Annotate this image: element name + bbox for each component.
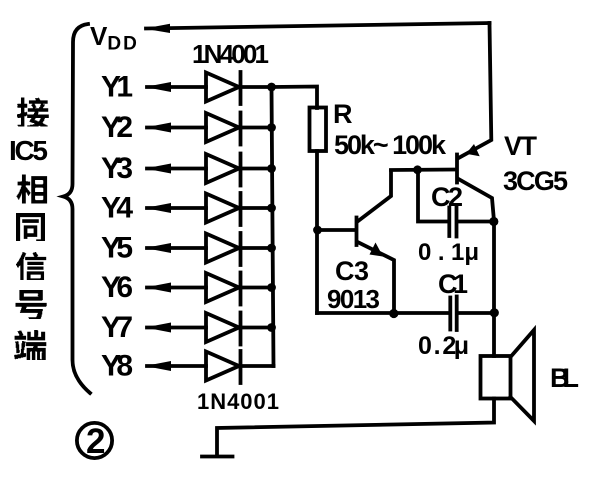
arrowhead on Y7 wire (pointing left) bbox=[145, 323, 171, 333]
wire Y8 row bbox=[147, 364, 206, 368]
junction dot base tee bbox=[313, 226, 322, 235]
arrowhead on Y6 wire (pointing left) bbox=[145, 283, 171, 293]
svg-text:1N4001: 1N4001 bbox=[192, 39, 269, 69]
diode D3 (1N4001) anode triangle bbox=[206, 154, 239, 183]
arrowhead on VDD rail (pointing left) bbox=[144, 24, 170, 33]
wire speaker bottom to ground bbox=[217, 399, 494, 455]
svg-text:Y6: Y6 bbox=[101, 271, 133, 304]
diode D1 (1N4001) anode triangle bbox=[206, 73, 239, 102]
svg-text:Y8: Y8 bbox=[101, 350, 133, 383]
svg-text:Y2: Y2 bbox=[101, 111, 133, 144]
diode D1 cathode bar bbox=[239, 72, 243, 104]
svg-text:Y4: Y4 bbox=[101, 192, 133, 225]
diode D8 (1N4001) anode triangle bbox=[206, 352, 239, 381]
resistor R body bbox=[310, 108, 327, 152]
transistor VT emitter (from top rail) bbox=[459, 23, 492, 158]
arrowhead on Y8 wire (pointing left) bbox=[145, 361, 171, 371]
svg-text:C3: C3 bbox=[335, 256, 369, 286]
capacitor C1 left plate bbox=[448, 298, 452, 330]
diode D6 cathode bar bbox=[239, 273, 243, 305]
wire diode D1 cathode to bus bbox=[241, 85, 274, 89]
svg-text:BL: BL bbox=[550, 363, 579, 393]
diode D6 (1N4001) anode triangle bbox=[206, 273, 239, 302]
svg-text:R: R bbox=[333, 99, 353, 129]
ground symbol bbox=[202, 455, 233, 459]
Chinese label 号 bbox=[16, 290, 47, 319]
arrowhead on Y3 wire (pointing left) bbox=[145, 164, 171, 174]
capacitor C2 right plate bbox=[455, 207, 459, 237]
wire diode D4 cathode to bus bbox=[241, 206, 274, 210]
junction dot bus/Y4 bbox=[267, 204, 276, 213]
wire base of Q1 (9013) bbox=[317, 228, 356, 232]
wire diode D5 cathode to bus bbox=[241, 246, 274, 250]
transistor Q1 collector bbox=[358, 171, 392, 222]
svg-text:Y7: Y7 bbox=[101, 311, 133, 344]
arrowhead on Y4 wire (pointing left) bbox=[145, 203, 171, 213]
wire diode D2 cathode to bus bbox=[241, 126, 274, 130]
arrowhead on Y2 wire (pointing left) bbox=[145, 123, 171, 133]
brace (left bracket grouping Y lines) bbox=[64, 24, 91, 393]
junction dot bus/Y6 bbox=[267, 283, 276, 292]
wire diode D6 cathode to bus bbox=[241, 286, 274, 290]
wire resistor bottom to oscillator bottom rail bbox=[315, 151, 319, 313]
wire VDD top rail bbox=[146, 23, 490, 29]
wire C1 right segment bbox=[459, 311, 495, 315]
wire Y2 row bbox=[147, 126, 206, 130]
svg-text:IC5: IC5 bbox=[9, 135, 48, 166]
figure number (2) circle bbox=[77, 423, 112, 458]
speaker BL cone bbox=[511, 330, 535, 421]
svg-text:0 . 2μ: 0 . 2μ bbox=[418, 332, 469, 360]
svg-text:Y1: Y1 bbox=[101, 71, 133, 104]
svg-text:C2: C2 bbox=[431, 182, 463, 212]
transistor Q1 emitter bbox=[358, 242, 395, 313]
wire bus to resistor R bbox=[272, 87, 318, 109]
junction dot bus/Y2 bbox=[267, 123, 276, 132]
junction dot C2/collector bbox=[489, 217, 498, 226]
transistor Q1 9013 base bar bbox=[355, 218, 359, 246]
diode D4 cathode bar bbox=[239, 193, 243, 225]
svg-text:3CG5: 3CG5 bbox=[503, 166, 568, 196]
diode D4 (1N4001) anode triangle bbox=[206, 194, 239, 223]
wire Y5 row bbox=[147, 246, 206, 250]
svg-text:9013: 9013 bbox=[327, 284, 380, 314]
wire C2 left branch bbox=[418, 170, 447, 222]
wire oscillator bottom rail left segment bbox=[317, 311, 448, 315]
wire cathode bus (vertical) bbox=[272, 87, 274, 366]
transistor Q1 emitter arrowhead bbox=[370, 243, 384, 257]
speaker BL frame bbox=[481, 356, 511, 399]
svg-text:VT: VT bbox=[504, 131, 538, 161]
wire diode D3 cathode to bus bbox=[241, 167, 274, 171]
diode D5 (1N4001) anode triangle bbox=[206, 234, 239, 263]
junction dot bus/Y7 bbox=[267, 323, 276, 332]
junction dot C1/right rail bbox=[490, 308, 499, 317]
svg-text:Y3: Y3 bbox=[101, 152, 133, 185]
svg-text:Y5: Y5 bbox=[101, 232, 133, 265]
wire Y6 row bbox=[147, 286, 206, 290]
wire Y3 row bbox=[147, 167, 206, 171]
diode D7 (1N4001) anode triangle bbox=[206, 313, 239, 342]
arrowhead on Y5 wire (pointing left) bbox=[145, 243, 171, 253]
Chinese label 相 bbox=[17, 175, 48, 204]
diode D5 cathode bar bbox=[239, 233, 243, 265]
diode D2 cathode bar bbox=[239, 113, 243, 145]
diode D8 cathode bar bbox=[239, 351, 243, 383]
Chinese label 信 bbox=[16, 252, 46, 280]
diode D3 cathode bar bbox=[239, 154, 243, 186]
transistor VT 3CG5 base bar bbox=[455, 155, 459, 183]
svg-text:2: 2 bbox=[86, 422, 105, 461]
transistor VT collector bbox=[459, 179, 495, 221]
junction dot bus/Y5 bbox=[267, 244, 276, 253]
capacitor C1 right plate bbox=[455, 297, 459, 331]
svg-text:0 . 1μ: 0 . 1μ bbox=[418, 239, 479, 266]
Chinese label 接 bbox=[17, 98, 49, 127]
capacitor C2 left plate bbox=[447, 208, 451, 237]
junction dot Q1 emitter/rail bbox=[389, 309, 398, 318]
junction dot C2 tee bbox=[413, 165, 422, 174]
junction dot bus/Y1 bbox=[267, 83, 276, 92]
wire VT collector down to speaker bbox=[492, 222, 496, 357]
wire Y7 row bbox=[147, 326, 206, 330]
wire diode D7 cathode to bus bbox=[241, 326, 274, 330]
svg-text:50k~ 100k: 50k~ 100k bbox=[334, 130, 447, 160]
wire Y1 row bbox=[147, 85, 206, 89]
wire Y4 row bbox=[147, 206, 206, 210]
transistor VT emitter arrowhead (pointing into base) bbox=[466, 144, 480, 156]
svg-text:1N4001: 1N4001 bbox=[197, 389, 279, 414]
wire Q1 collector to VT base bbox=[391, 168, 456, 172]
Chinese label 同 bbox=[16, 213, 45, 241]
wire C2 right to collector line bbox=[459, 220, 495, 224]
junction dot bus/Y3 bbox=[267, 164, 276, 173]
svg-text:C1: C1 bbox=[438, 269, 468, 299]
wire diode D8 cathode to bus bbox=[241, 364, 274, 368]
diode D2 (1N4001) anode triangle bbox=[206, 113, 239, 142]
Chinese label 端 bbox=[14, 330, 46, 360]
arrowhead on Y1 wire (pointing left) bbox=[145, 82, 171, 92]
diode D7 cathode bar bbox=[239, 313, 243, 345]
